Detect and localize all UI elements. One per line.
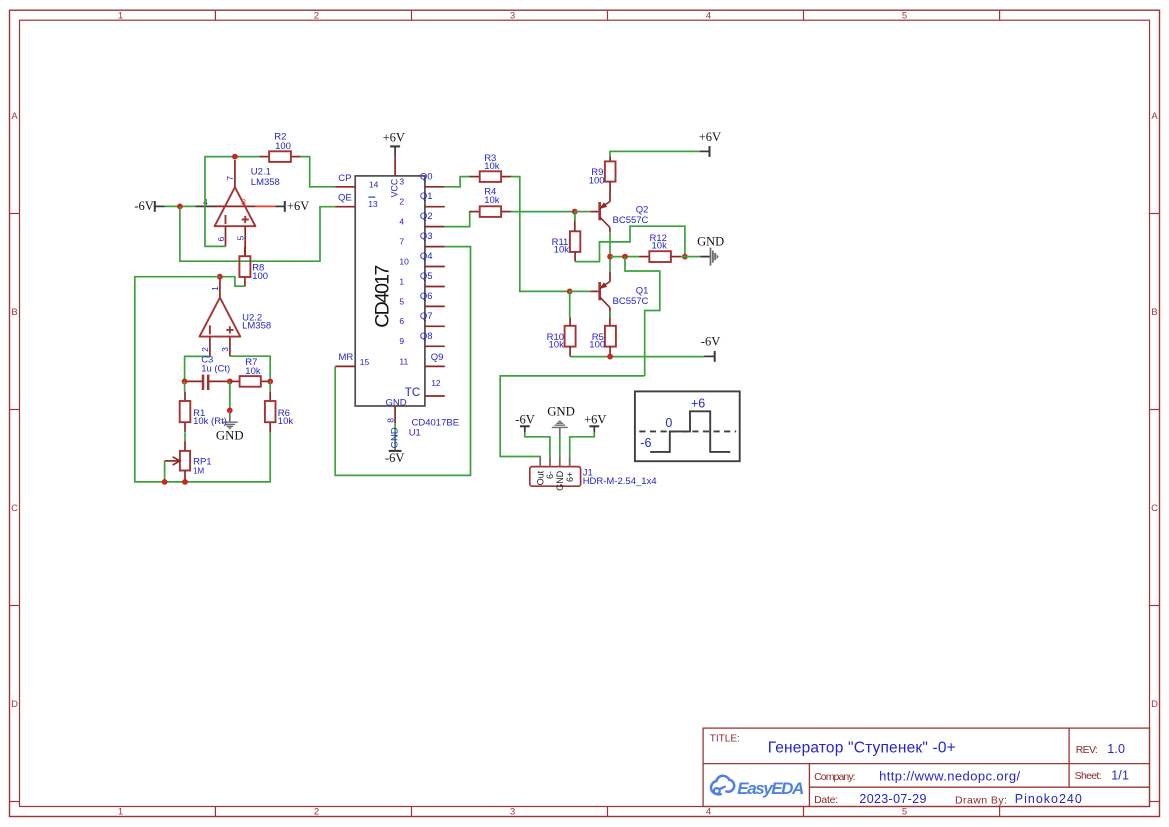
frame column ticks bottom bbox=[215, 807, 999, 817]
svg-text:1.0: 1.0 bbox=[1107, 742, 1125, 756]
U1 VCC pin stub bbox=[394, 157, 396, 176]
U1 GND pin stub bottom bbox=[394, 406, 396, 423]
frame row ticks right bbox=[1150, 214, 1160, 802]
svg-text:QE: QE bbox=[338, 193, 352, 204]
U1 pin number 13 with inversion bar bbox=[368, 197, 378, 209]
op-amp U2.1 pin 4 black stub bbox=[195, 205, 215, 207]
net port +6V top right bbox=[699, 130, 721, 157]
junction U2.1 output R2 feedback bbox=[232, 154, 238, 160]
svg-text:11: 11 bbox=[399, 356, 408, 366]
wire QE net from junction down right to CD4017 QE pin bbox=[180, 206, 335, 261]
capacitor C3 bbox=[185, 375, 230, 390]
svg-text:9: 9 bbox=[399, 336, 404, 346]
frame row ticks left bbox=[10, 214, 20, 802]
wire -6V to J1 pin 2 bbox=[525, 433, 550, 458]
svg-text:10k: 10k bbox=[652, 241, 668, 252]
wire R12 left link bbox=[610, 256, 639, 258]
IC U1 CD4017 body box bbox=[355, 176, 425, 406]
R9 top pin stub bbox=[609, 156, 611, 161]
resistor R6 body bbox=[265, 391, 276, 432]
svg-text:6: 6 bbox=[399, 316, 404, 326]
wire R10 top pin stub bbox=[569, 317, 571, 326]
svg-text:Генератор "Ступенек" -0+: Генератор "Ступенек" -0+ bbox=[768, 739, 956, 756]
svg-text:-6V: -6V bbox=[134, 199, 153, 213]
frame row labels left A-D bbox=[11, 111, 18, 710]
waveform staircase trace bbox=[650, 411, 730, 452]
wire U2.1 output node bbox=[205, 157, 235, 247]
svg-text:-6V: -6V bbox=[385, 451, 404, 465]
svg-text:6: 6 bbox=[216, 237, 226, 242]
wire GND to J1 pin 3 bbox=[559, 437, 561, 458]
wire R1 bottom to RP1 bbox=[184, 432, 186, 441]
svg-text:10k: 10k bbox=[278, 416, 294, 427]
svg-text:BC557C: BC557C bbox=[613, 296, 649, 307]
svg-text:10k: 10k bbox=[484, 161, 500, 172]
svg-text:3: 3 bbox=[510, 10, 515, 21]
transistor Q1 BC557C bbox=[590, 272, 610, 307]
svg-text:-6V: -6V bbox=[515, 413, 534, 427]
op-amp U2.1 non-inverting input marker bbox=[242, 216, 249, 223]
svg-text:10: 10 bbox=[399, 256, 409, 266]
svg-text:Date:: Date: bbox=[814, 794, 838, 806]
svg-text:7: 7 bbox=[225, 176, 235, 181]
net port -6V at op-amp U2.1 pin 4 bbox=[134, 199, 164, 213]
wire C3 node down to GND bbox=[229, 381, 231, 410]
U1 pin Q6 stub bbox=[425, 305, 445, 307]
svg-text:10k: 10k bbox=[245, 366, 261, 377]
svg-text:100: 100 bbox=[589, 339, 605, 350]
wire R1 top green segment bbox=[184, 381, 186, 391]
svg-text:3: 3 bbox=[399, 177, 404, 187]
svg-text:Q9: Q9 bbox=[431, 352, 444, 363]
svg-text:8: 8 bbox=[385, 418, 395, 423]
U1 pin Q2 stub bbox=[425, 226, 445, 228]
wire branch from R12 left down to output stair bbox=[625, 257, 660, 376]
wire Q1 collector green overlay bbox=[609, 311, 611, 318]
wire -6V rail right bbox=[570, 356, 704, 358]
net port -6V below U1 bbox=[385, 451, 404, 465]
svg-text:GND: GND bbox=[390, 427, 401, 448]
U1 pin MR stub bbox=[335, 365, 355, 367]
junction U2.2 output node bbox=[217, 274, 223, 280]
svg-text:15: 15 bbox=[360, 357, 370, 367]
svg-text:1: 1 bbox=[118, 807, 123, 818]
net port -6V above J1 bbox=[515, 413, 534, 433]
wire R9 bottom to Q2 emitter bbox=[609, 182, 611, 193]
resistor R8 body bbox=[239, 247, 250, 287]
svg-text:Sheet:: Sheet: bbox=[1075, 770, 1102, 782]
junction C3 left R1 top bbox=[182, 379, 188, 385]
svg-text:+6V: +6V bbox=[383, 130, 405, 144]
svg-text:CP: CP bbox=[338, 173, 351, 184]
resistor R7 body bbox=[229, 376, 271, 387]
resistor R12 body bbox=[639, 251, 681, 262]
wire R11 bottom to R12 right and GND bbox=[575, 226, 685, 261]
svg-text:2: 2 bbox=[200, 347, 210, 352]
resistor R5 body bbox=[605, 326, 616, 347]
wire +6V to R9 top bbox=[610, 151, 700, 156]
op-amp U2.1 pin 8 red stub bbox=[255, 205, 275, 207]
op-amp U2.2 pin 3 stub bbox=[229, 337, 231, 357]
ground symbol GND right bbox=[700, 248, 718, 266]
svg-text:2: 2 bbox=[314, 807, 319, 818]
resistor R10 body bbox=[565, 326, 576, 347]
svg-text:5: 5 bbox=[902, 10, 907, 21]
junction at GND symbol bbox=[227, 408, 233, 414]
wire R10 top bbox=[569, 291, 571, 317]
wire pin3 to R7 right node bbox=[230, 356, 270, 381]
U1 pin Q7 stub bbox=[425, 325, 445, 327]
svg-text:GND: GND bbox=[547, 405, 575, 419]
op-amp U2.1 triangle bbox=[215, 187, 256, 226]
U1 pin Q1 stub bbox=[425, 206, 445, 208]
svg-text:5: 5 bbox=[902, 807, 907, 818]
svg-text:Q4: Q4 bbox=[420, 251, 433, 262]
net port +6V above J1 bbox=[584, 413, 606, 433]
U1 pin QE stub bbox=[335, 206, 355, 208]
svg-text:7: 7 bbox=[399, 237, 404, 247]
ground symbol GND mid-left bbox=[222, 410, 238, 429]
resistor R4 body bbox=[470, 206, 512, 217]
svg-text:C: C bbox=[11, 503, 18, 514]
waveform diagram box bbox=[635, 391, 740, 461]
svg-text:+6V: +6V bbox=[287, 199, 309, 213]
net port -6V right bbox=[701, 335, 720, 362]
junction R7 right R6 top bbox=[267, 379, 273, 385]
junction R12 left branch down bbox=[622, 254, 628, 260]
svg-text:Q2: Q2 bbox=[636, 204, 649, 215]
svg-text:Q8: Q8 bbox=[420, 331, 433, 342]
svg-text:6-: 6- bbox=[545, 471, 555, 479]
svg-text:5: 5 bbox=[399, 296, 404, 306]
svg-text:Pinoko240: Pinoko240 bbox=[1015, 792, 1082, 806]
svg-text:Q5: Q5 bbox=[420, 271, 433, 282]
svg-text:100: 100 bbox=[589, 176, 605, 187]
svg-text:4: 4 bbox=[399, 217, 404, 227]
U1 pin Q5 stub bbox=[425, 286, 445, 288]
op-amp U2.2 pin 2 stub bbox=[209, 337, 211, 357]
op-amp U2.1 pin 6 stub bbox=[225, 226, 227, 246]
svg-text:0: 0 bbox=[665, 416, 672, 430]
junction Q2 base R11 top bbox=[572, 209, 578, 215]
svg-text:1u (Ct): 1u (Ct) bbox=[201, 364, 230, 375]
svg-text:10k: 10k bbox=[484, 195, 500, 206]
svg-text:GND: GND bbox=[216, 428, 244, 442]
wire RP1 wiper down to bottom rail bbox=[164, 461, 166, 482]
wire big loop U2.2 output to bottom rail bbox=[135, 277, 270, 482]
svg-text:8: 8 bbox=[241, 197, 246, 207]
svg-text:+6V: +6V bbox=[584, 413, 606, 427]
svg-text:U2.1: U2.1 bbox=[251, 166, 271, 177]
svg-text:1/1: 1/1 bbox=[1111, 769, 1129, 783]
svg-text:5: 5 bbox=[236, 236, 246, 241]
svg-text:12: 12 bbox=[431, 378, 441, 388]
svg-text:3: 3 bbox=[220, 347, 230, 352]
svg-text:B: B bbox=[11, 307, 17, 318]
wire +6V to J1 pin 4 bbox=[570, 433, 595, 458]
wire -6V to pin4 junction bbox=[165, 205, 196, 207]
frame column labels bottom 1-5 bbox=[118, 807, 907, 818]
U1 pin Q9 stub bbox=[425, 365, 445, 367]
U1 pin Q8 stub bbox=[425, 345, 445, 347]
wire Q2 collector to Q1 emitter bbox=[609, 232, 611, 273]
wire R5 bottom stub bbox=[609, 347, 611, 357]
frame column labels top 1-5 bbox=[118, 10, 907, 21]
wire R2 right to CD4017 CP pin bbox=[301, 157, 335, 187]
wire R6 top green segment bbox=[269, 381, 271, 391]
EasyEDA logo bbox=[711, 776, 804, 798]
svg-text:+6V: +6V bbox=[699, 130, 721, 144]
wire output to R2 left bbox=[235, 156, 259, 158]
svg-text:D: D bbox=[11, 699, 18, 710]
ground symbol GND above J1 bbox=[552, 420, 568, 436]
svg-text:1M: 1M bbox=[193, 467, 204, 476]
svg-text:14: 14 bbox=[369, 180, 379, 190]
svg-text:13: 13 bbox=[368, 199, 378, 209]
wire Q1 base green segment bbox=[570, 290, 591, 292]
wire Q2 base green segment bbox=[575, 211, 591, 213]
svg-text:LM358: LM358 bbox=[251, 177, 280, 188]
svg-text:LM358: LM358 bbox=[242, 320, 271, 331]
U1 pin Q4 stub bbox=[425, 266, 445, 268]
U1 pin TC stub bbox=[425, 395, 445, 397]
wire R11 bottom bbox=[574, 252, 576, 262]
resistor R3 body bbox=[470, 171, 512, 182]
U1 pin Q3 stub bbox=[425, 246, 445, 248]
junction R5 bottom -6V rail bbox=[607, 354, 613, 360]
svg-text:10k: 10k bbox=[554, 245, 570, 256]
svg-text:2: 2 bbox=[314, 10, 319, 21]
svg-text:1: 1 bbox=[118, 10, 123, 21]
op-amp U2.2 triangle bbox=[200, 298, 241, 337]
wire R12 right to GND port bbox=[681, 256, 700, 258]
svg-text:4: 4 bbox=[706, 10, 711, 21]
resistor R11 body bbox=[570, 231, 580, 252]
junction RP1 wiper bottom rail bbox=[162, 479, 168, 485]
svg-text:2023-07-29: 2023-07-29 bbox=[859, 792, 926, 806]
svg-text:4: 4 bbox=[706, 807, 711, 818]
svg-text:Q2: Q2 bbox=[420, 211, 433, 222]
wire R8 bottom jog to U2.2 output junction bbox=[220, 277, 245, 287]
svg-text:10k (Rt): 10k (Rt) bbox=[193, 416, 227, 427]
junction collector line R12 left bbox=[607, 254, 613, 260]
svg-text:EasyEDA: EasyEDA bbox=[737, 779, 804, 798]
U1 pin CP stub bbox=[335, 186, 355, 188]
svg-text:Out: Out bbox=[535, 470, 545, 485]
svg-text:+6: +6 bbox=[691, 396, 705, 410]
svg-text:3: 3 bbox=[510, 807, 515, 818]
svg-text:Q3: Q3 bbox=[420, 231, 433, 242]
wire U1 GND pin to -6V port bbox=[394, 423, 396, 451]
svg-text:Q7: Q7 bbox=[420, 311, 433, 322]
op-amp U2.1 inverting input marker bbox=[225, 215, 227, 224]
op-amp U2.2 non-inverting input marker bbox=[226, 326, 233, 333]
op-amp U2.1 power rail line across triangle bbox=[215, 205, 256, 207]
svg-text:-6V: -6V bbox=[701, 335, 720, 349]
wire pin2 to C3 left node bbox=[185, 356, 210, 381]
frame column ticks top bbox=[215, 10, 999, 20]
svg-text:TITLE:: TITLE: bbox=[710, 733, 740, 744]
wire output net to J1 Out pin bbox=[500, 376, 645, 457]
svg-text:CD4017: CD4017 bbox=[371, 265, 393, 328]
svg-text:Q1: Q1 bbox=[636, 285, 649, 296]
svg-text:GND: GND bbox=[555, 470, 565, 491]
svg-text:http://www.nedopc.org/: http://www.nedopc.org/ bbox=[879, 768, 1020, 783]
junction C3 right R7 left GND branch bbox=[227, 379, 233, 385]
svg-text:Q0: Q0 bbox=[420, 171, 433, 182]
svg-text:B: B bbox=[1151, 307, 1157, 318]
wire Q2 to R4 left bbox=[445, 212, 471, 227]
junction Q1 base R10 top bbox=[567, 289, 573, 295]
svg-text:-6: -6 bbox=[640, 436, 651, 450]
junction RP1 bottom pin bottom rail bbox=[182, 479, 188, 485]
svg-text:BC557C: BC557C bbox=[613, 215, 649, 226]
wire R11 top green part bbox=[574, 212, 576, 222]
wire R3 right down to Q1 base bbox=[511, 177, 570, 292]
svg-text:MR: MR bbox=[339, 352, 354, 363]
wire Q0 to R3 left bbox=[445, 177, 470, 187]
svg-text:Q1: Q1 bbox=[420, 191, 433, 202]
wire R10 bottom stub bbox=[569, 347, 571, 357]
op-amp U2.2 output pin 1 bbox=[219, 277, 221, 298]
wire Q3 to MR reset loop bbox=[335, 247, 470, 476]
svg-text:1: 1 bbox=[210, 286, 220, 291]
resistor R9 body bbox=[605, 161, 616, 181]
svg-text:HDR-M-2.54_1x4: HDR-M-2.54_1x4 bbox=[583, 476, 657, 487]
op-amp U2.1 pin 5 stub to R8 bbox=[244, 226, 246, 256]
transistor Q2 BC557C bbox=[590, 192, 610, 232]
wire Q1 collector to R5 bbox=[609, 308, 611, 326]
potentiometer RP1 bbox=[165, 441, 190, 482]
svg-text:100: 100 bbox=[275, 141, 291, 152]
svg-text:2: 2 bbox=[399, 197, 404, 207]
svg-text:100: 100 bbox=[252, 271, 268, 282]
svg-text:6+: 6+ bbox=[565, 472, 575, 482]
svg-text:REV:: REV: bbox=[1076, 744, 1098, 756]
wire R11 top bbox=[574, 212, 576, 232]
svg-text:VCC: VCC bbox=[389, 178, 399, 197]
svg-text:D: D bbox=[1151, 699, 1158, 710]
svg-text:Drawn By:: Drawn By: bbox=[955, 794, 1007, 806]
resistor R1 body bbox=[180, 391, 191, 432]
U1 pin Q0 stub bbox=[425, 186, 445, 188]
svg-text:TC: TC bbox=[405, 387, 420, 399]
svg-text:C: C bbox=[1151, 503, 1158, 514]
svg-text:1: 1 bbox=[399, 276, 404, 286]
junction at -6V wire and QE branch bbox=[177, 204, 183, 210]
connector J1 body bbox=[530, 457, 581, 486]
svg-text:A: A bbox=[1151, 111, 1158, 122]
junction R12 right GND node bbox=[682, 254, 688, 260]
wire R4 right to Q2 base bbox=[511, 211, 575, 213]
net port +6V above U1 VCC bbox=[383, 130, 405, 156]
resistor R2 body bbox=[259, 151, 301, 162]
waveform zero dashed line bbox=[639, 430, 736, 432]
svg-text:Q6: Q6 bbox=[420, 291, 433, 302]
svg-text:Company:: Company: bbox=[814, 771, 856, 783]
svg-text:GND: GND bbox=[386, 398, 407, 409]
svg-text:U1: U1 bbox=[409, 428, 421, 439]
net port +6V at op-amp U2.1 pin 8 bbox=[275, 199, 309, 213]
svg-text:10k: 10k bbox=[549, 339, 565, 350]
frame row labels right A-D bbox=[1151, 111, 1158, 710]
svg-text:A: A bbox=[11, 111, 18, 122]
op-amp U2.2 inverting input marker bbox=[209, 325, 211, 334]
title block outline bbox=[703, 728, 1149, 806]
op-amp U2.1 output pin 7 bbox=[234, 160, 236, 187]
svg-text:GND: GND bbox=[697, 235, 724, 249]
